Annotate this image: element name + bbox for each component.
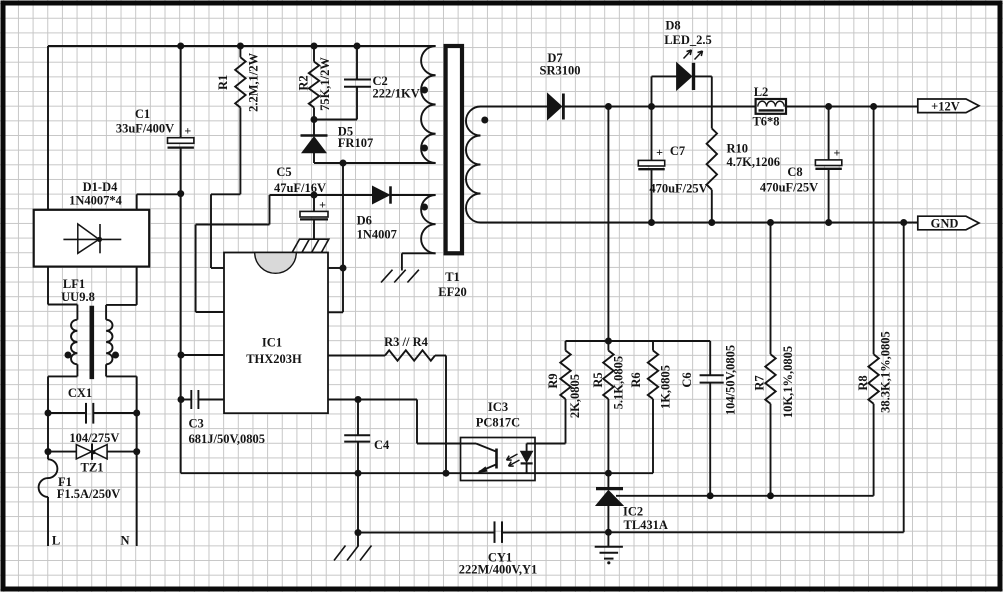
svg-text:C3: C3: [189, 417, 204, 431]
svg-text:222M/400V,Y1: 222M/400V,Y1: [459, 563, 538, 577]
svg-text:1N4007*4: 1N4007*4: [69, 194, 123, 208]
svg-text:N: N: [120, 534, 129, 548]
svg-text:R2: R2: [297, 75, 311, 90]
svg-text:R5: R5: [591, 372, 605, 387]
svg-text:10K,1%,0805: 10K,1%,0805: [781, 346, 795, 418]
svg-text:1N4007: 1N4007: [357, 228, 397, 242]
svg-text:L2: L2: [754, 85, 769, 99]
svg-text:R3 // R4: R3 // R4: [384, 335, 429, 349]
svg-text:R10: R10: [727, 141, 749, 155]
svg-text:47uF/16V: 47uF/16V: [274, 181, 326, 195]
svg-text:2K,0805: 2K,0805: [568, 374, 582, 418]
svg-text:R8: R8: [856, 375, 870, 390]
svg-text:CX1: CX1: [68, 386, 92, 400]
svg-text:75K,1/2W: 75K,1/2W: [318, 57, 332, 111]
svg-text:IC2: IC2: [623, 505, 643, 519]
svg-text:C4: C4: [374, 438, 390, 452]
svg-text:T1: T1: [445, 270, 460, 284]
svg-text:TZ1: TZ1: [81, 460, 104, 474]
svg-text:FR107: FR107: [338, 136, 373, 150]
svg-text:IC3: IC3: [488, 400, 508, 414]
svg-text:D1-D4: D1-D4: [83, 180, 118, 194]
svg-text:470uF/25V: 470uF/25V: [649, 181, 707, 195]
svg-text:PC817C: PC817C: [476, 416, 520, 430]
svg-text:+: +: [833, 145, 840, 159]
svg-text:TL431A: TL431A: [624, 518, 668, 532]
svg-text:38.3K,1%,0805: 38.3K,1%,0805: [879, 331, 893, 413]
svg-text:+: +: [319, 198, 326, 212]
svg-text:C5: C5: [276, 165, 291, 179]
svg-text:104/275V: 104/275V: [69, 431, 119, 445]
svg-text:104/50V,0805: 104/50V,0805: [724, 345, 738, 415]
svg-text:R9: R9: [546, 373, 560, 388]
svg-text:5.1K,0805: 5.1K,0805: [612, 356, 626, 409]
svg-text:222/1KV: 222/1KV: [373, 87, 420, 101]
svg-text:33uF/400V: 33uF/400V: [116, 122, 174, 136]
svg-text:C6: C6: [680, 372, 694, 387]
svg-text:F1.5A/250V: F1.5A/250V: [57, 487, 121, 501]
svg-text:R7: R7: [753, 375, 767, 390]
svg-text:681J/50V,0805: 681J/50V,0805: [189, 432, 266, 446]
svg-text:EF20: EF20: [438, 285, 466, 299]
svg-text:UU9.8: UU9.8: [61, 290, 95, 304]
svg-text:D8: D8: [665, 19, 680, 33]
svg-text:THX203H: THX203H: [246, 352, 302, 366]
svg-text:+: +: [184, 124, 191, 138]
svg-text:470uF/25V: 470uF/25V: [760, 180, 818, 194]
svg-text:GND: GND: [931, 216, 959, 230]
svg-text:C1: C1: [135, 107, 150, 121]
svg-text:D6: D6: [357, 214, 372, 228]
svg-text:IC1: IC1: [262, 336, 282, 350]
svg-text:SR3100: SR3100: [540, 64, 581, 78]
svg-text:4.7K,1206: 4.7K,1206: [727, 155, 780, 169]
svg-text:C7: C7: [670, 144, 685, 158]
svg-text:L: L: [52, 534, 60, 548]
svg-text:+: +: [656, 145, 663, 159]
svg-text:R1: R1: [216, 75, 230, 90]
svg-text:LED_2.5: LED_2.5: [664, 33, 712, 47]
svg-text:+12V: +12V: [931, 99, 960, 113]
svg-text:1K,0805: 1K,0805: [659, 365, 673, 409]
svg-text:C8: C8: [787, 165, 802, 179]
svg-text:T6*8: T6*8: [752, 115, 779, 129]
svg-text:R6: R6: [629, 372, 643, 387]
svg-text:2.2M,1/2W: 2.2M,1/2W: [246, 52, 260, 112]
